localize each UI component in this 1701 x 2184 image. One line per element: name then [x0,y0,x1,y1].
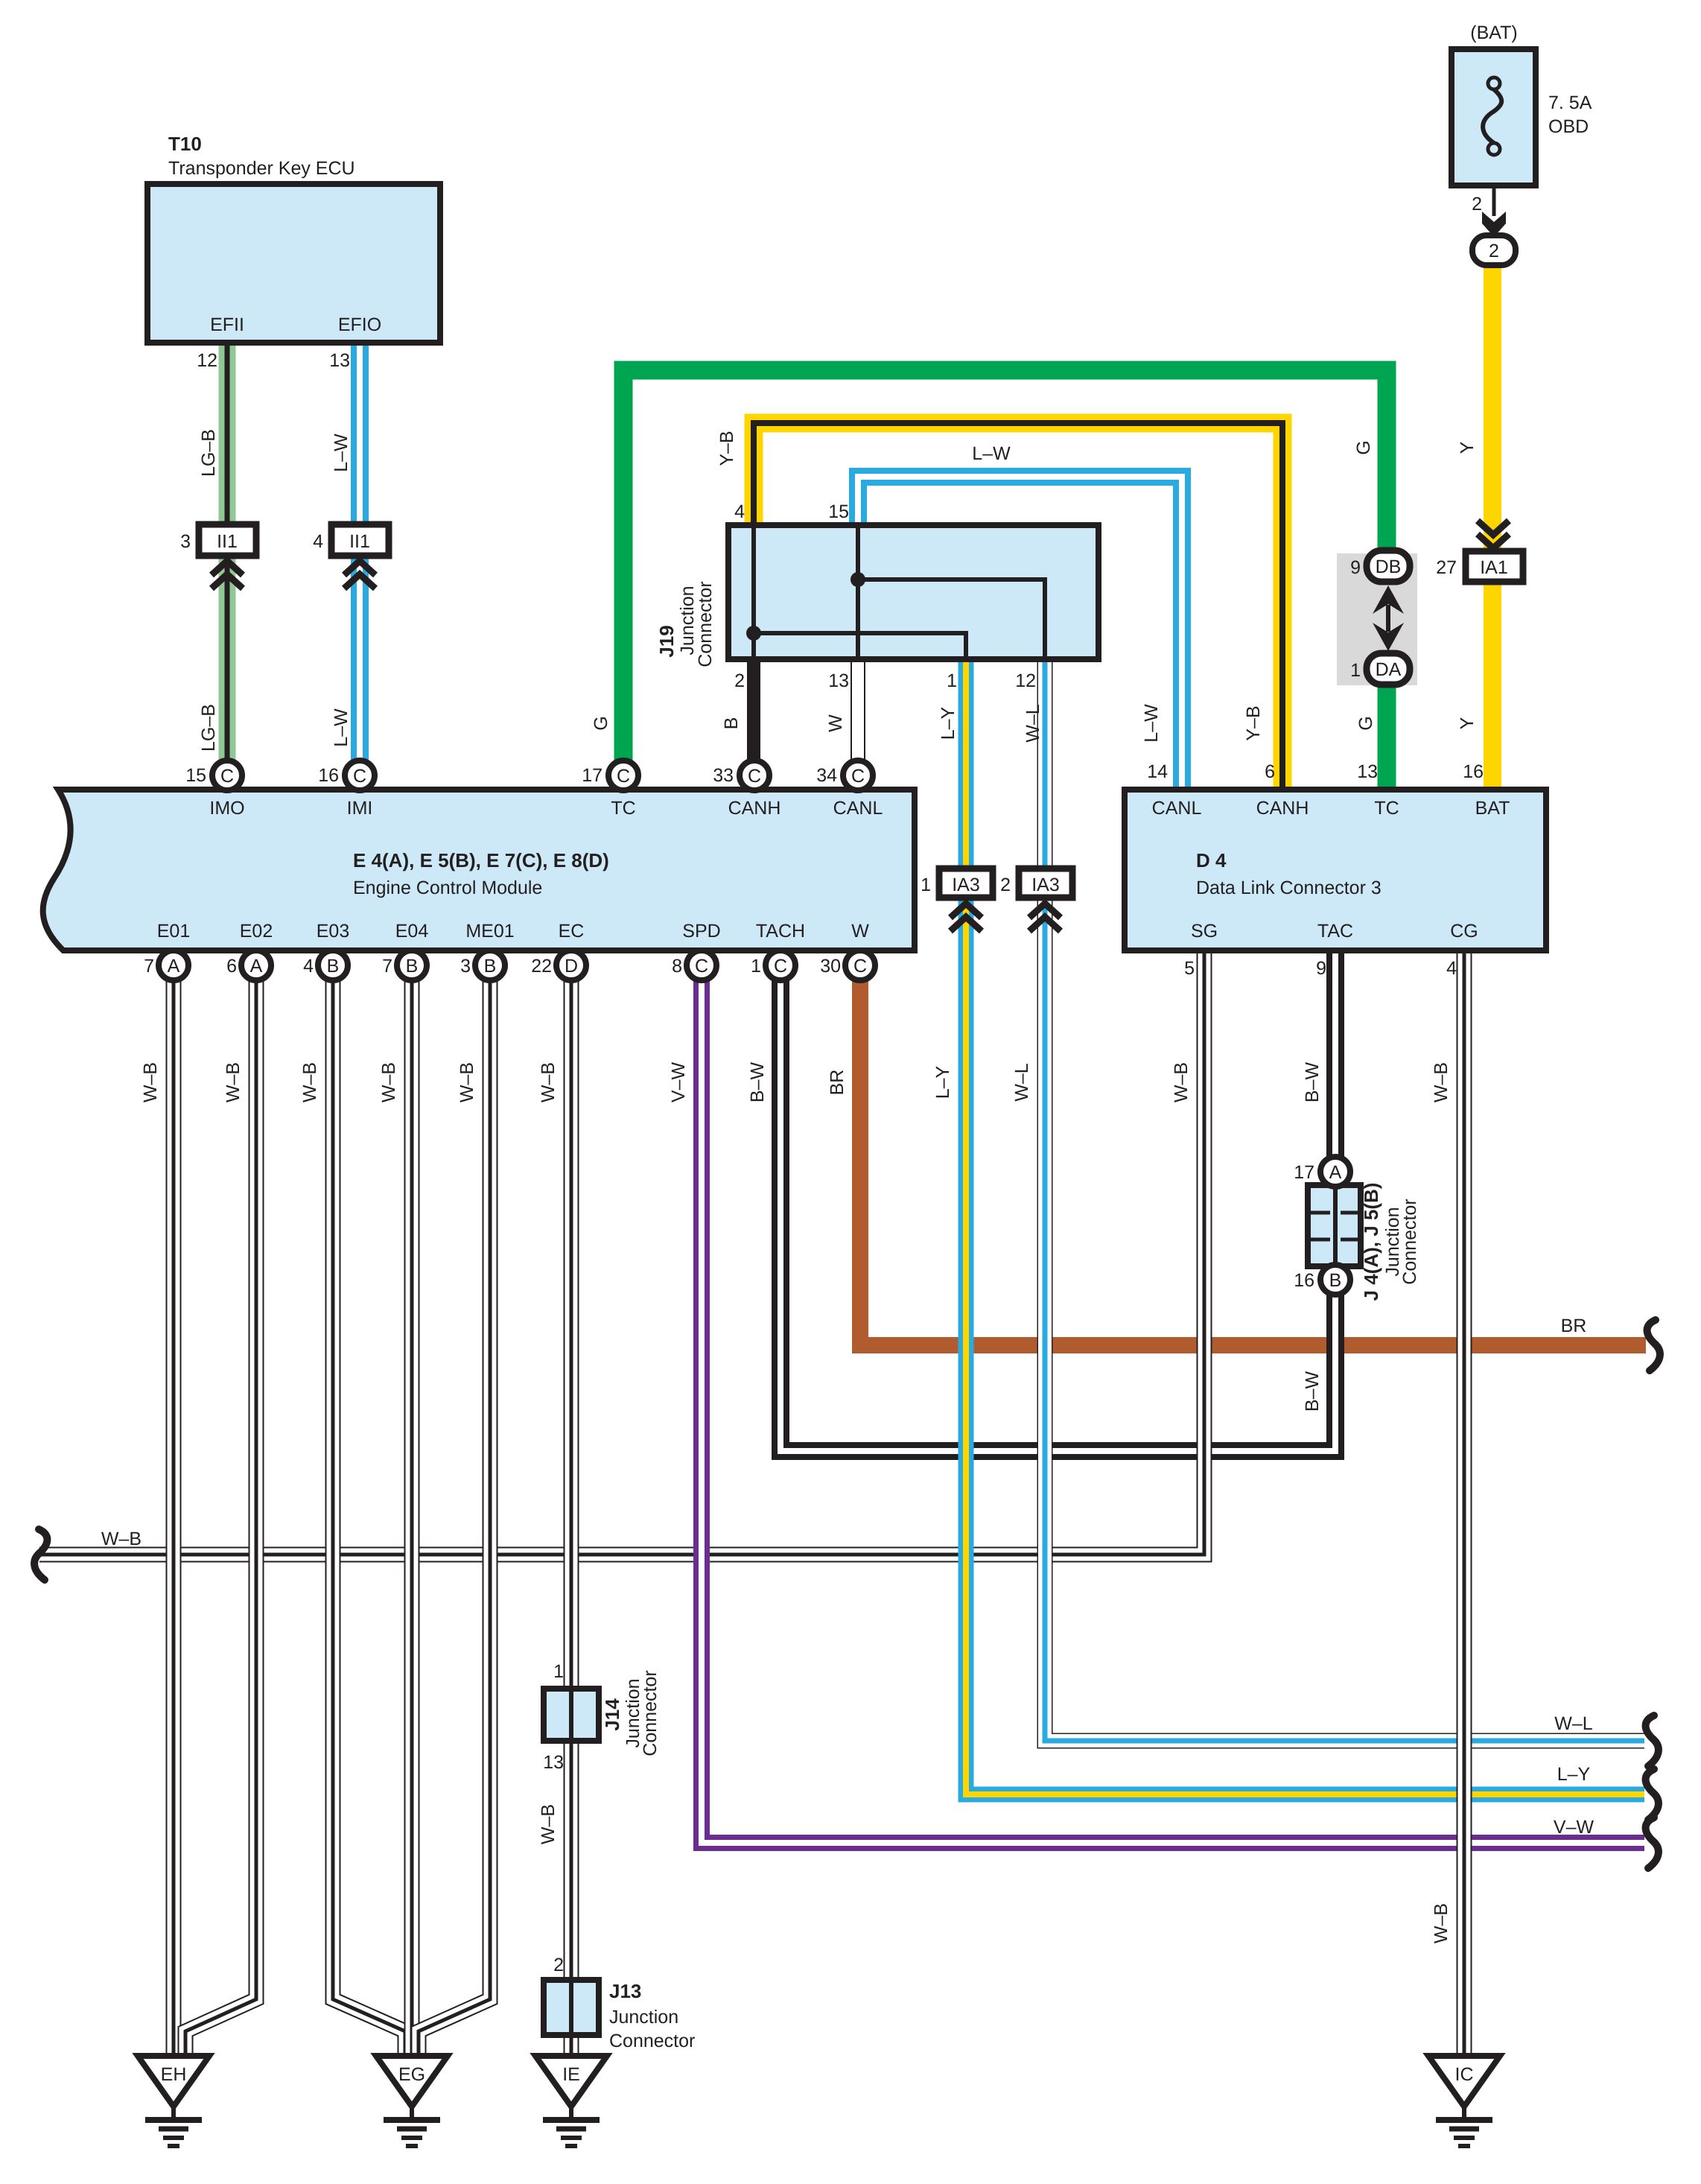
svg-text:16: 16 [1463,761,1484,782]
ECM pin 1 C (TACH) [766,950,795,980]
svg-text:CANH: CANH [728,798,781,819]
D4 Data Link Connector 3 box [1125,790,1546,950]
wire L-W from T10 EFIO to ECM IMI [351,343,369,763]
svg-text:B–W: B–W [747,1062,768,1103]
svg-text:IMO: IMO [209,798,244,819]
svg-text:V–W: V–W [1554,1817,1595,1838]
T10 Transponder Key ECU box [147,184,440,343]
svg-text:2: 2 [1489,241,1499,261]
wire W from J19 pin 13 to ECM CANL(34) [850,656,865,763]
svg-text:C: C [853,956,867,977]
svg-text:Y: Y [1457,717,1478,729]
svg-text:7: 7 [382,956,392,977]
svg-text:ME01: ME01 [465,921,514,942]
svg-text:13: 13 [329,350,350,371]
svg-text:IMI: IMI [347,798,373,819]
J13 junction connector [544,1980,599,2035]
ground IE [535,2056,607,2146]
svg-text:TC: TC [1374,798,1399,819]
svg-text:Connector: Connector [1399,1199,1420,1284]
J19 Junction Connector box [728,525,1099,659]
svg-text:5: 5 [1184,958,1195,979]
svg-text:1: 1 [1350,660,1361,681]
svg-text:W–L: W–L [1011,1063,1032,1102]
ECM top pin names [209,798,883,819]
svg-text:W: W [851,921,869,942]
svg-text:Data Link Connector 3: Data Link Connector 3 [1196,877,1382,898]
svg-text:33: 33 [713,765,734,786]
wire W-B horizontal + D4 SG(5) vertical [39,950,1204,1555]
svg-text:22: 22 [531,956,552,977]
wire W-B from D4 CG(4) down to IC ground [1457,950,1472,2056]
svg-text:W–B: W–B [223,1062,244,1102]
svg-text:2: 2 [553,1955,564,1975]
svg-text:16: 16 [1294,1270,1314,1291]
svg-text:8: 8 [672,956,682,977]
svg-text:6: 6 [226,956,237,977]
svg-text:TACH: TACH [756,921,805,942]
squiggle right end of V-W [1646,1818,1659,1868]
svg-text:C: C [774,956,787,977]
ground IC [1428,2056,1500,2146]
squiggle right end of BR [1647,1320,1660,1371]
connector oval 2 below fuse [1472,235,1516,265]
squiggle right end of L-Y [1646,1769,1659,1820]
svg-text:17: 17 [1294,1162,1314,1183]
J14 junction connector [544,1689,599,1741]
svg-text:LG–B: LG–B [198,704,219,752]
svg-text:Y–B: Y–B [716,431,737,466]
svg-text:E03: E03 [317,921,349,942]
svg-text:BR: BR [827,1070,848,1096]
svg-text:7. 5A: 7. 5A [1548,92,1592,113]
svg-text:G: G [591,716,611,730]
svg-text:E04: E04 [395,921,429,942]
DB DA connector with gray background [1337,550,1417,685]
svg-text:G: G [1353,440,1374,454]
svg-text:E01: E01 [157,921,190,942]
ECM pin 8 C (SPD) [687,950,716,980]
svg-text:W–B: W–B [1431,1062,1452,1102]
wire BR from ECM pin W(30) to right edge [860,976,1646,1345]
J19 rotated name [655,581,716,667]
wire LG-B from T10 EFII to ECM IMO [219,343,236,763]
svg-text:J 4(A), J 5(B): J 4(A), J 5(B) [1360,1183,1382,1301]
ECM bottom pin numbers [144,956,841,977]
svg-text:D: D [565,956,578,977]
svg-text:IC: IC [1455,2064,1474,2085]
svg-text:2: 2 [1472,194,1482,215]
svg-text:3: 3 [180,531,191,552]
svg-text:W–B: W–B [101,1529,142,1549]
svg-text:SG: SG [1191,921,1218,942]
svg-text:W–L: W–L [1023,704,1043,743]
fuse 7.5A OBD box [1452,49,1536,185]
svg-text:9: 9 [1350,557,1361,578]
wire Y-B from J19 pin 4 up right down to D4 CANH [754,423,1282,790]
chevrons under II1 left [212,561,243,588]
ground EH [138,2056,209,2146]
wire Y from fuse oval down to D4 BAT [1484,261,1501,790]
svg-text:II1: II1 [217,531,238,552]
svg-text:4: 4 [1446,958,1457,979]
svg-text:DA: DA [1376,659,1402,680]
svg-text:W: W [825,714,846,732]
svg-text:C: C [748,766,761,787]
svg-text:30: 30 [820,956,841,977]
svg-text:D 4: D 4 [1196,849,1227,872]
wire G from ECM TC(17) up right down through DB/DA to D4 TC [623,370,1387,790]
svg-text:(BAT): (BAT) [1470,22,1517,43]
svg-text:7: 7 [144,956,154,977]
wire W-B E01(7) to EH ground [166,976,182,2056]
svg-text:EC: EC [559,921,585,942]
svg-text:Transponder Key ECU: Transponder Key ECU [168,158,355,179]
wire B from J19 pin 2 to ECM CANH(33) [747,656,760,763]
svg-text:J19: J19 [655,625,678,657]
svg-text:BAT: BAT [1475,798,1510,819]
svg-text:Engine Control Module: Engine Control Module [353,877,542,898]
svg-text:4: 4 [303,956,314,977]
svg-text:CANL: CANL [833,798,883,819]
svg-text:W–B: W–B [457,1062,477,1102]
other wire labels [101,1315,1595,1943]
svg-text:B: B [1329,1270,1342,1291]
ECM pin 30 C (W) [845,950,875,980]
svg-text:17: 17 [582,765,602,786]
svg-text:C: C [220,766,234,787]
svg-text:6: 6 [1265,761,1275,782]
svg-text:C: C [851,766,865,787]
wire name labels row 971 [198,704,1478,752]
wire W-B EC(22) down to IE ground through J14 J13 [564,976,579,2056]
squiggle left end of W-B [34,1529,47,1580]
svg-text:16: 16 [318,765,339,786]
ECM title [353,849,609,898]
svg-text:L–W: L–W [331,708,352,747]
ECM pin 34 C (CANL) [843,761,873,790]
J4(A) J5(B) junction connector [1308,1157,1361,1295]
IA1 labels [1436,557,1508,578]
svg-text:14: 14 [1147,761,1168,782]
svg-text:SPD: SPD [682,921,720,942]
ECM pin 4 B (E03) [318,950,348,980]
IA1 connector box with chevron above [1466,521,1523,582]
svg-text:4: 4 [313,531,323,552]
IA3 connector box 1 [939,869,993,931]
wire W-B E02(6) bends to EH [185,976,256,2056]
wire B-W from ECM TACH(1) down right up to J4 pin B [780,976,1335,1451]
svg-text:1: 1 [947,670,957,691]
fuse link line and arrow [1482,153,1506,237]
svg-text:L–Y: L–Y [1557,1764,1591,1785]
svg-text:J13: J13 [609,1980,641,2002]
wire W-L from J19 pin 12 through IA3 to right edge [1045,656,1644,1741]
svg-text:LG–B: LG–B [198,429,219,477]
svg-text:W–B: W–B [1171,1062,1192,1102]
ECM pin 16 C (IMI) [345,761,375,790]
svg-text:IA3: IA3 [952,874,980,895]
svg-text:J14: J14 [601,1698,623,1731]
svg-text:13: 13 [543,1752,564,1773]
wire W-B ME01(3) bends to EG [419,976,490,2056]
svg-text:B: B [721,717,742,730]
wire L-W from J19 pin 15 up right down to D4 CANL [858,477,1182,790]
svg-text:L–W: L–W [331,434,352,472]
svg-text:BR: BR [1561,1315,1587,1336]
svg-text:IE: IE [562,2064,580,2085]
svg-text:W–B: W–B [299,1062,320,1102]
svg-text:1: 1 [751,956,761,977]
svg-text:L–Y: L–Y [938,706,958,740]
ECM pin 33 C (CANH) [740,761,769,790]
ECM pin 15 C (IMO) [212,761,242,790]
svg-text:4: 4 [734,501,745,522]
J4 J5 labels [1294,1162,1420,1301]
svg-text:Y: Y [1457,441,1478,454]
svg-text:13: 13 [1357,761,1378,782]
ECM pin 22 D (EC) [556,950,586,980]
D4 labels [1147,761,1510,979]
svg-text:3: 3 [460,956,471,977]
II1 labels [180,531,370,552]
IA3 labels [921,874,1060,895]
II1 connector boxes [199,524,256,556]
svg-text:II1: II1 [349,531,370,552]
svg-text:W–B: W–B [140,1062,161,1102]
chevrons under II1 right [344,561,375,588]
ECM pin 17 C (TC) [608,761,638,790]
svg-text:A: A [1329,1162,1342,1183]
ECM top pin numbers [185,765,837,786]
DB DA labels [1350,556,1402,681]
svg-text:IA3: IA3 [1031,874,1060,895]
svg-text:OBD: OBD [1548,116,1589,137]
svg-text:9: 9 [1316,958,1326,979]
svg-text:G: G [1355,716,1376,730]
svg-text:2: 2 [1000,874,1011,895]
svg-text:CANH: CANH [1256,798,1309,819]
svg-text:EH: EH [161,2064,187,2085]
ECM pin 6 A (E02) [241,950,271,980]
ECM pin 7 A (E01) [159,950,188,980]
svg-text:CG: CG [1450,921,1478,942]
svg-text:Connector: Connector [609,2031,695,2051]
wire L-Y from J19 pin 1 through IA3 to right edge [966,656,1644,1794]
svg-text:W–L: W–L [1554,1713,1593,1734]
ECM box E4(A) E5(B) E7(C) E8(D) [43,790,915,950]
svg-text:TAC: TAC [1317,921,1353,942]
svg-text:E02: E02 [240,921,273,942]
svg-text:12: 12 [1015,670,1036,691]
wire name labels row 1453 [140,1062,1452,1103]
svg-text:12: 12 [197,350,217,371]
svg-text:A: A [250,956,263,977]
svg-text:B–W: B–W [1302,1371,1323,1412]
svg-text:B: B [327,956,340,977]
T10 labels [168,133,381,371]
ECM bottom pin names [157,921,869,942]
svg-text:W–B: W–B [538,1062,559,1102]
J13 labels [553,1955,695,2051]
svg-text:DB: DB [1376,556,1402,577]
wire V-W from ECM SPD(8) to right edge [702,976,1644,1843]
svg-text:EFII: EFII [210,314,244,335]
svg-text:EFIO: EFIO [338,314,381,335]
svg-text:W–B: W–B [538,1804,559,1844]
svg-text:1: 1 [553,1661,564,1682]
svg-text:Connector: Connector [695,581,716,667]
wire W-B E03(4) bends to EG [333,976,405,2056]
svg-text:2: 2 [734,670,745,691]
svg-text:E 4(A), E 5(B), E 7(C), E 8(D): E 4(A), E 5(B), E 7(C), E 8(D) [353,849,609,872]
J14 labels [543,1661,661,1773]
svg-text:IA1: IA1 [1480,557,1508,578]
svg-text:Junction: Junction [609,2007,678,2028]
J19 pin numbers [734,501,1036,691]
ECM pin 3 B (ME01) [475,950,505,980]
svg-text:TC: TC [611,798,635,819]
fuse labels [1470,22,1592,261]
svg-text:CANL: CANL [1152,798,1202,819]
ECM pin 7 B (E04) [397,950,427,980]
svg-text:T10: T10 [168,133,202,155]
svg-text:15: 15 [185,765,206,786]
squiggle right end of W-L [1646,1715,1659,1766]
svg-text:W–B: W–B [378,1062,399,1102]
svg-text:Connector: Connector [640,1670,661,1756]
svg-text:27: 27 [1436,557,1457,578]
svg-text:C: C [353,766,366,787]
svg-text:W–B: W–B [1431,1903,1452,1943]
svg-text:1: 1 [921,874,931,895]
svg-text:V–W: V–W [668,1062,689,1103]
wire name labels row 600 [198,429,1478,477]
svg-text:L–Y: L–Y [932,1065,953,1099]
svg-text:B–W: B–W [1302,1062,1323,1103]
svg-text:A: A [168,956,180,977]
IA3 connector box 2 [1019,869,1072,931]
svg-text:L–W: L–W [1141,704,1162,743]
svg-text:13: 13 [828,670,849,691]
svg-text:15: 15 [828,501,849,522]
wire B-W from D4 TAC(9) down to J4 pin A [1326,950,1344,1177]
svg-text:B: B [406,956,419,977]
svg-text:C: C [695,956,708,977]
svg-text:B: B [484,956,497,977]
ground EG [376,2056,448,2146]
wire W-B E04(7) to EG ground [404,976,420,2056]
svg-text:34: 34 [816,765,837,786]
svg-text:L–W: L–W [972,443,1011,464]
svg-text:EG: EG [398,2064,425,2085]
svg-text:Y–B: Y–B [1243,705,1264,740]
svg-text:C: C [617,766,630,787]
